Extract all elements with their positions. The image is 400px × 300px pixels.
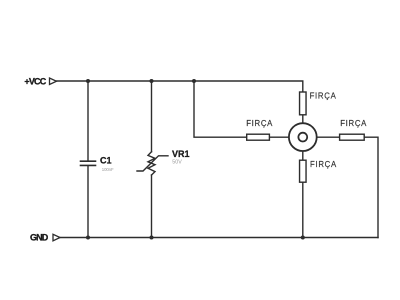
- svg-text:+VCC: +VCC: [24, 76, 46, 86]
- svg-text:50V: 50V: [172, 159, 182, 165]
- svg-text:GND: GND: [30, 233, 49, 243]
- svg-text:VR1: VR1: [172, 149, 190, 159]
- svg-text:C1: C1: [100, 156, 112, 166]
- svg-text:100nF: 100nF: [102, 167, 114, 172]
- svg-text:FIRÇA: FIRÇA: [246, 119, 273, 128]
- svg-text:FIRÇA: FIRÇA: [340, 119, 367, 128]
- svg-text:FIRÇA: FIRÇA: [310, 91, 337, 100]
- svg-text:FIRÇA: FIRÇA: [310, 160, 337, 169]
